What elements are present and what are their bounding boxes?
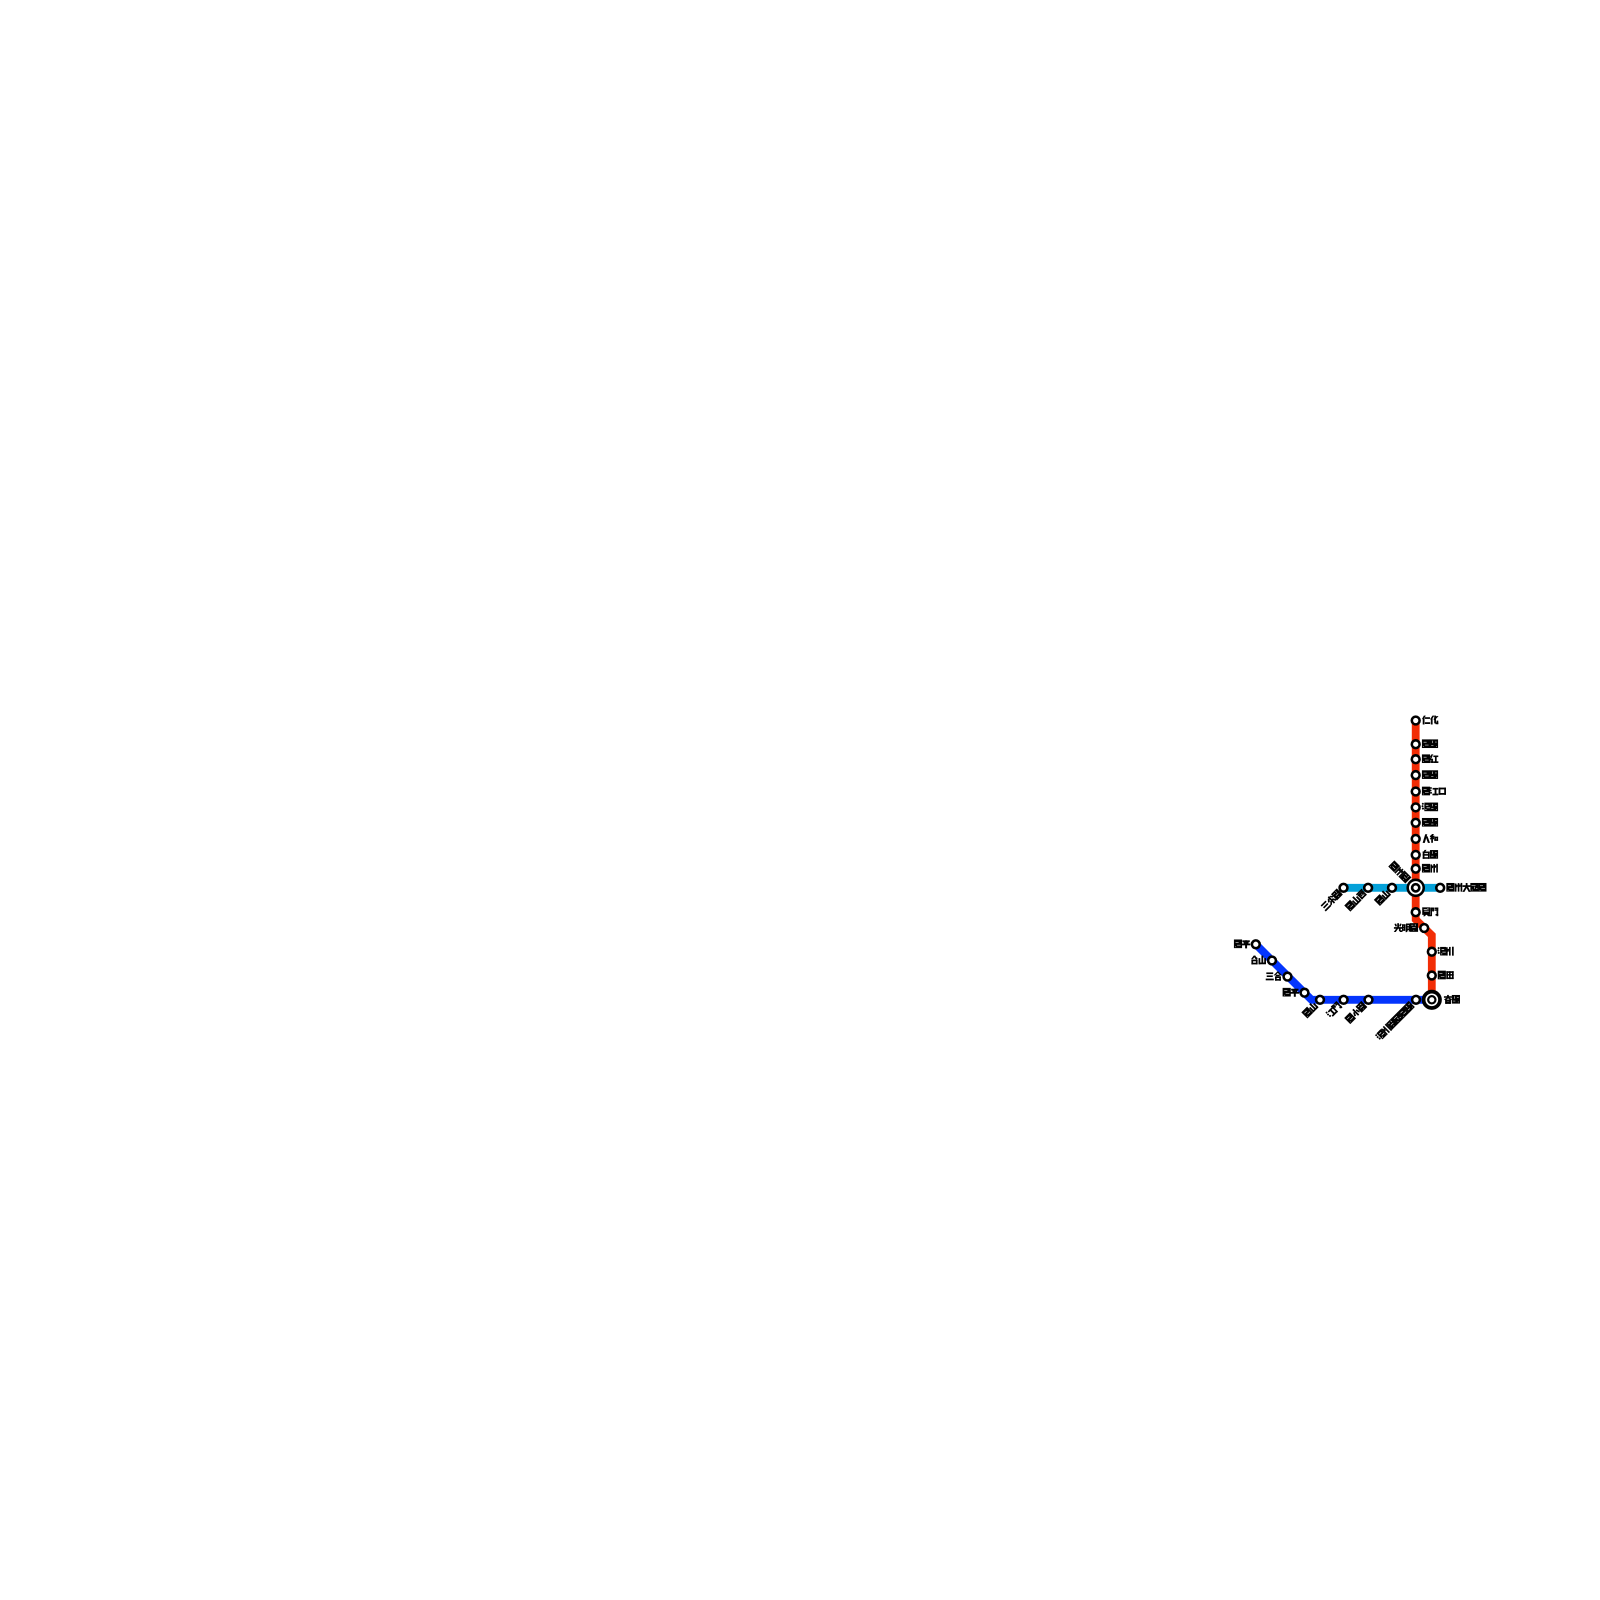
- label 英紅: [1422, 755, 1438, 763]
- station 三合: [1284, 973, 1292, 981]
- station 虎門: [1412, 908, 1420, 916]
- label 廣州: [1422, 864, 1437, 872]
- label 韶關: [1422, 740, 1438, 748]
- label 廣州南: [1389, 861, 1411, 883]
- station 東小欖: [1365, 996, 1373, 1004]
- blue line 恩平-香港: [1256, 944, 1432, 1000]
- label 開平: [1283, 988, 1299, 996]
- station 深圳: [1428, 948, 1436, 956]
- label 仁化: [1422, 716, 1438, 724]
- label 福田: [1438, 971, 1453, 979]
- station 韶關: [1412, 740, 1420, 748]
- label 清遠: [1422, 803, 1438, 811]
- station 英德: [1412, 771, 1420, 779]
- station 佛山西: [1364, 884, 1372, 892]
- label 英德: [1422, 771, 1438, 779]
- red line 仁化-香港: [1416, 721, 1432, 1000]
- interchange station 香港: [1424, 992, 1440, 1008]
- station 恩平: [1252, 940, 1260, 948]
- label 江門: [1325, 1001, 1342, 1018]
- label 深圳機場東站: [1375, 1001, 1415, 1041]
- station 連江口: [1412, 788, 1420, 796]
- station 鶴山: [1316, 996, 1324, 1004]
- label 虎門: [1423, 908, 1438, 916]
- label 白雲: [1423, 850, 1438, 858]
- station 清遠: [1412, 804, 1420, 812]
- label 人和: [1423, 834, 1438, 842]
- label 連江口: [1422, 787, 1446, 795]
- label 佛山: [1374, 889, 1391, 906]
- station 開平: [1301, 989, 1309, 997]
- station 福田: [1428, 972, 1436, 980]
- label 台山: [1252, 956, 1266, 964]
- station 台山: [1268, 957, 1276, 965]
- station 廣州: [1412, 865, 1420, 873]
- station 人和: [1412, 835, 1420, 843]
- label 光明城: [1394, 923, 1418, 931]
- label 佛山西: [1345, 889, 1367, 911]
- interchange station 廣州南: [1408, 880, 1424, 896]
- label 深圳: [1438, 947, 1454, 955]
- label 香港: [1444, 995, 1460, 1003]
- station 廣州大學城: [1436, 884, 1444, 892]
- label 三水東: [1320, 889, 1342, 911]
- station 光明城: [1420, 924, 1428, 932]
- label 銀盞: [1422, 818, 1438, 826]
- station 深圳機場東站: [1412, 996, 1420, 1004]
- label 恩平: [1234, 940, 1250, 948]
- label 東小欖: [1345, 1001, 1367, 1023]
- label 廣州大學城: [1447, 883, 1487, 891]
- station 佛山: [1388, 884, 1396, 892]
- station 英紅: [1412, 755, 1420, 763]
- cyan line 三水東-廣州大學城: [1344, 884, 1441, 892]
- label 鶴山: [1302, 1001, 1319, 1018]
- station 銀盞: [1412, 819, 1420, 827]
- station 江門: [1340, 996, 1348, 1004]
- station 仁化: [1412, 717, 1420, 725]
- station 三水東: [1340, 884, 1348, 892]
- label 三合: [1266, 972, 1281, 981]
- station 白雲: [1412, 851, 1420, 859]
